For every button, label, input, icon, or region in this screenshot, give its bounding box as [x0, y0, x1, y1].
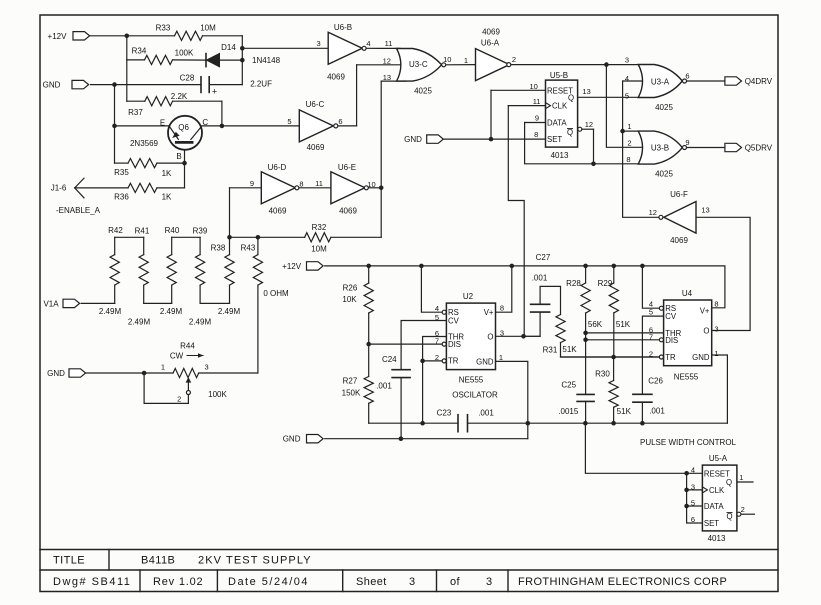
svg-text:R36: R36	[114, 193, 129, 202]
svg-text:2.2UF: 2.2UF	[250, 80, 272, 89]
svg-text:9: 9	[250, 179, 254, 188]
svg-text:10K: 10K	[342, 295, 357, 304]
svg-text:2.49M: 2.49M	[128, 318, 151, 327]
svg-text:5: 5	[287, 117, 291, 126]
svg-text:O: O	[703, 327, 709, 336]
svg-text:GND: GND	[47, 369, 65, 378]
svg-text:C25: C25	[561, 381, 576, 390]
svg-text:.001: .001	[532, 274, 548, 283]
svg-text:U6-C: U6-C	[306, 100, 325, 109]
svg-text:Q: Q	[567, 128, 573, 137]
svg-text:+12V: +12V	[48, 32, 68, 41]
svg-text:11: 11	[385, 39, 393, 48]
svg-text:U3-B: U3-B	[651, 144, 669, 153]
svg-text:2: 2	[649, 350, 653, 359]
svg-text:U3-C: U3-C	[409, 60, 428, 69]
svg-text:6: 6	[691, 515, 695, 524]
svg-text:13: 13	[582, 87, 590, 96]
svg-text:1: 1	[627, 122, 631, 131]
svg-text:4069: 4069	[307, 143, 325, 152]
svg-text:4069: 4069	[482, 28, 500, 37]
svg-text:5: 5	[649, 308, 653, 317]
svg-text:13: 13	[383, 73, 391, 82]
svg-text:V+: V+	[700, 306, 710, 315]
svg-text:4025: 4025	[655, 103, 673, 112]
svg-text:B411B: B411B	[141, 555, 175, 567]
svg-text:2: 2	[627, 138, 631, 147]
svg-text:5: 5	[625, 91, 629, 100]
svg-text:12: 12	[649, 208, 657, 217]
svg-text:9: 9	[685, 138, 689, 147]
svg-text:100K: 100K	[175, 49, 194, 58]
svg-text:B: B	[176, 152, 181, 161]
svg-text:C24: C24	[382, 355, 397, 364]
svg-text:2.49M: 2.49M	[218, 307, 241, 316]
svg-text:R38: R38	[211, 244, 226, 253]
svg-text:56K: 56K	[588, 320, 603, 329]
svg-text:Q5DRV: Q5DRV	[745, 144, 773, 153]
svg-text:1: 1	[739, 473, 743, 482]
svg-text:-ENABLE_A: -ENABLE_A	[56, 206, 101, 215]
svg-text:J1-6: J1-6	[51, 184, 67, 193]
svg-text:SET: SET	[547, 135, 562, 144]
svg-text:V+: V+	[484, 308, 494, 317]
svg-text:U6-A: U6-A	[481, 39, 500, 48]
svg-text:Date 5/24/04: Date 5/24/04	[228, 576, 309, 588]
svg-text:8: 8	[714, 300, 718, 309]
svg-text:R29: R29	[598, 279, 613, 288]
svg-text:DIS: DIS	[665, 336, 678, 345]
svg-text:CLK: CLK	[552, 102, 568, 111]
svg-text:OSCILATOR: OSCILATOR	[452, 391, 498, 400]
svg-text:2N3569: 2N3569	[130, 139, 159, 148]
svg-text:13: 13	[701, 206, 709, 215]
svg-text:2: 2	[512, 55, 516, 64]
svg-text:Q: Q	[726, 478, 732, 487]
svg-text:2: 2	[435, 353, 439, 362]
svg-text:2.49M: 2.49M	[160, 307, 183, 316]
svg-text:Sheet: Sheet	[356, 576, 387, 588]
svg-text:U4: U4	[682, 289, 693, 298]
svg-text:TITLE: TITLE	[53, 555, 85, 567]
svg-text:0 OHM: 0 OHM	[263, 289, 289, 298]
svg-text:51K: 51K	[616, 320, 631, 329]
svg-text:51K: 51K	[562, 345, 577, 354]
svg-text:3: 3	[625, 55, 629, 64]
svg-text:4013: 4013	[551, 151, 569, 160]
svg-text:9: 9	[535, 114, 539, 123]
svg-text:R26: R26	[343, 284, 358, 293]
svg-text:NE555: NE555	[459, 376, 484, 385]
svg-text:4069: 4069	[670, 236, 688, 245]
svg-text:.0015: .0015	[558, 407, 579, 416]
svg-text:CLK: CLK	[709, 486, 725, 495]
svg-text:3: 3	[205, 363, 209, 372]
svg-text:11: 11	[315, 179, 323, 188]
svg-text:1: 1	[161, 363, 165, 372]
svg-text:CW: CW	[170, 352, 184, 361]
svg-text:C: C	[202, 118, 208, 127]
svg-text:4069: 4069	[269, 207, 287, 216]
svg-text:Dwg# SB411: Dwg# SB411	[53, 576, 131, 588]
svg-text:4: 4	[691, 465, 695, 474]
svg-text:R42: R42	[108, 226, 123, 235]
svg-text:R35: R35	[114, 168, 129, 177]
svg-text:10: 10	[530, 82, 538, 91]
svg-text:U6-B: U6-B	[334, 23, 352, 32]
svg-text:O: O	[487, 332, 493, 341]
svg-text:+: +	[212, 87, 217, 97]
svg-text:3: 3	[317, 39, 321, 48]
svg-text:3: 3	[691, 482, 695, 491]
svg-text:10M: 10M	[311, 245, 327, 254]
svg-text:R39: R39	[193, 227, 208, 236]
svg-text:4: 4	[625, 74, 629, 83]
svg-text:FROTHINGHAM ELECTRONICS CORP: FROTHINGHAM ELECTRONICS CORP	[518, 576, 727, 588]
svg-text:8: 8	[299, 180, 303, 189]
svg-text:6: 6	[338, 117, 342, 126]
svg-text:R33: R33	[156, 24, 171, 33]
svg-text:Q: Q	[568, 94, 574, 103]
svg-text:2.2K: 2.2K	[171, 92, 188, 101]
svg-text:R44: R44	[180, 342, 195, 351]
svg-text:TR: TR	[665, 353, 676, 362]
svg-text:R31: R31	[543, 346, 558, 355]
svg-text:GND: GND	[476, 357, 494, 366]
svg-text:E: E	[160, 118, 165, 127]
svg-text:DATA: DATA	[704, 502, 724, 511]
svg-text:NE555: NE555	[674, 373, 699, 382]
svg-text:of: of	[450, 576, 461, 588]
svg-text:Q: Q	[726, 512, 732, 521]
svg-text:R28: R28	[566, 279, 581, 288]
svg-text:4025: 4025	[655, 170, 673, 179]
svg-text:R43: R43	[241, 244, 256, 253]
svg-text:2: 2	[741, 505, 745, 514]
svg-text:U3-A: U3-A	[651, 77, 670, 86]
svg-text:GND: GND	[404, 135, 422, 144]
svg-text:R32: R32	[312, 223, 327, 232]
svg-text:U5-A: U5-A	[709, 454, 728, 463]
svg-text:Rev 1.02: Rev 1.02	[153, 576, 203, 588]
svg-text:U6-D: U6-D	[268, 163, 287, 172]
svg-text:12: 12	[585, 120, 593, 129]
svg-text:U5-B: U5-B	[550, 71, 568, 80]
svg-text:4069: 4069	[339, 207, 357, 216]
svg-text:10: 10	[443, 55, 451, 64]
svg-text:2KV TEST SUPPLY: 2KV TEST SUPPLY	[198, 555, 312, 567]
svg-text:3: 3	[409, 576, 416, 588]
svg-text:U2: U2	[463, 292, 474, 301]
svg-text:R41: R41	[135, 227, 150, 236]
svg-text:2: 2	[177, 394, 181, 403]
svg-text:1: 1	[464, 56, 468, 65]
svg-text:8: 8	[534, 130, 538, 139]
svg-text:3: 3	[486, 576, 493, 588]
svg-text:6: 6	[685, 72, 689, 81]
svg-text:4025: 4025	[414, 86, 432, 95]
svg-text:12: 12	[383, 56, 391, 65]
svg-text:PULSE WIDTH CONTROL: PULSE WIDTH CONTROL	[640, 438, 737, 447]
svg-text:CV: CV	[448, 316, 460, 325]
svg-text:C26: C26	[648, 377, 663, 386]
svg-text:11: 11	[533, 97, 541, 106]
svg-text:10: 10	[367, 180, 375, 189]
svg-text:D14: D14	[221, 43, 236, 52]
svg-text:C28: C28	[180, 74, 195, 83]
svg-text:1: 1	[499, 353, 503, 362]
svg-text:10M: 10M	[200, 24, 216, 33]
svg-text:100K: 100K	[208, 390, 227, 399]
svg-text:8: 8	[500, 304, 504, 313]
svg-text:1: 1	[714, 349, 718, 358]
svg-text:R34: R34	[132, 47, 147, 56]
svg-text:4013: 4013	[708, 534, 726, 543]
svg-text:GND: GND	[692, 353, 710, 362]
svg-text:150K: 150K	[342, 389, 361, 398]
svg-text:C23: C23	[437, 409, 452, 418]
svg-text:GND: GND	[43, 81, 61, 90]
svg-text:5: 5	[435, 313, 439, 322]
svg-text:3: 3	[714, 325, 718, 334]
svg-text:DIS: DIS	[448, 340, 461, 349]
svg-text:.001: .001	[376, 382, 392, 391]
svg-text:8: 8	[626, 155, 630, 164]
svg-text:7: 7	[649, 333, 653, 342]
svg-text:+12V: +12V	[282, 262, 302, 271]
svg-text:4069: 4069	[327, 73, 345, 82]
svg-text:V1A: V1A	[43, 299, 59, 308]
svg-text:U6-F: U6-F	[670, 190, 688, 199]
svg-text:U6-E: U6-E	[338, 163, 356, 172]
svg-text:R40: R40	[165, 226, 180, 235]
svg-text:.001: .001	[649, 407, 665, 416]
svg-text:2.49M: 2.49M	[99, 307, 122, 316]
svg-text:C27: C27	[536, 253, 551, 262]
svg-text:3: 3	[500, 328, 504, 337]
svg-text:DATA: DATA	[547, 119, 567, 128]
svg-text:1N4148: 1N4148	[252, 56, 281, 65]
svg-text:4: 4	[366, 39, 370, 48]
svg-text:Q4DRV: Q4DRV	[745, 77, 773, 86]
svg-text:R37: R37	[128, 108, 143, 117]
svg-text:CV: CV	[665, 312, 677, 321]
svg-text:R30: R30	[595, 370, 610, 379]
svg-text:2.49M: 2.49M	[189, 318, 212, 327]
svg-text:1K: 1K	[162, 169, 172, 178]
svg-text:.001: .001	[478, 408, 494, 417]
svg-text:Q6: Q6	[178, 123, 189, 132]
svg-text:TR: TR	[448, 357, 459, 366]
svg-text:1K: 1K	[162, 193, 172, 202]
svg-text:R27: R27	[343, 377, 358, 386]
svg-text:5: 5	[691, 498, 695, 507]
svg-text:51K: 51K	[617, 407, 632, 416]
svg-text:SET: SET	[704, 519, 719, 528]
svg-text:GND: GND	[283, 435, 301, 444]
svg-text:7: 7	[435, 337, 439, 346]
